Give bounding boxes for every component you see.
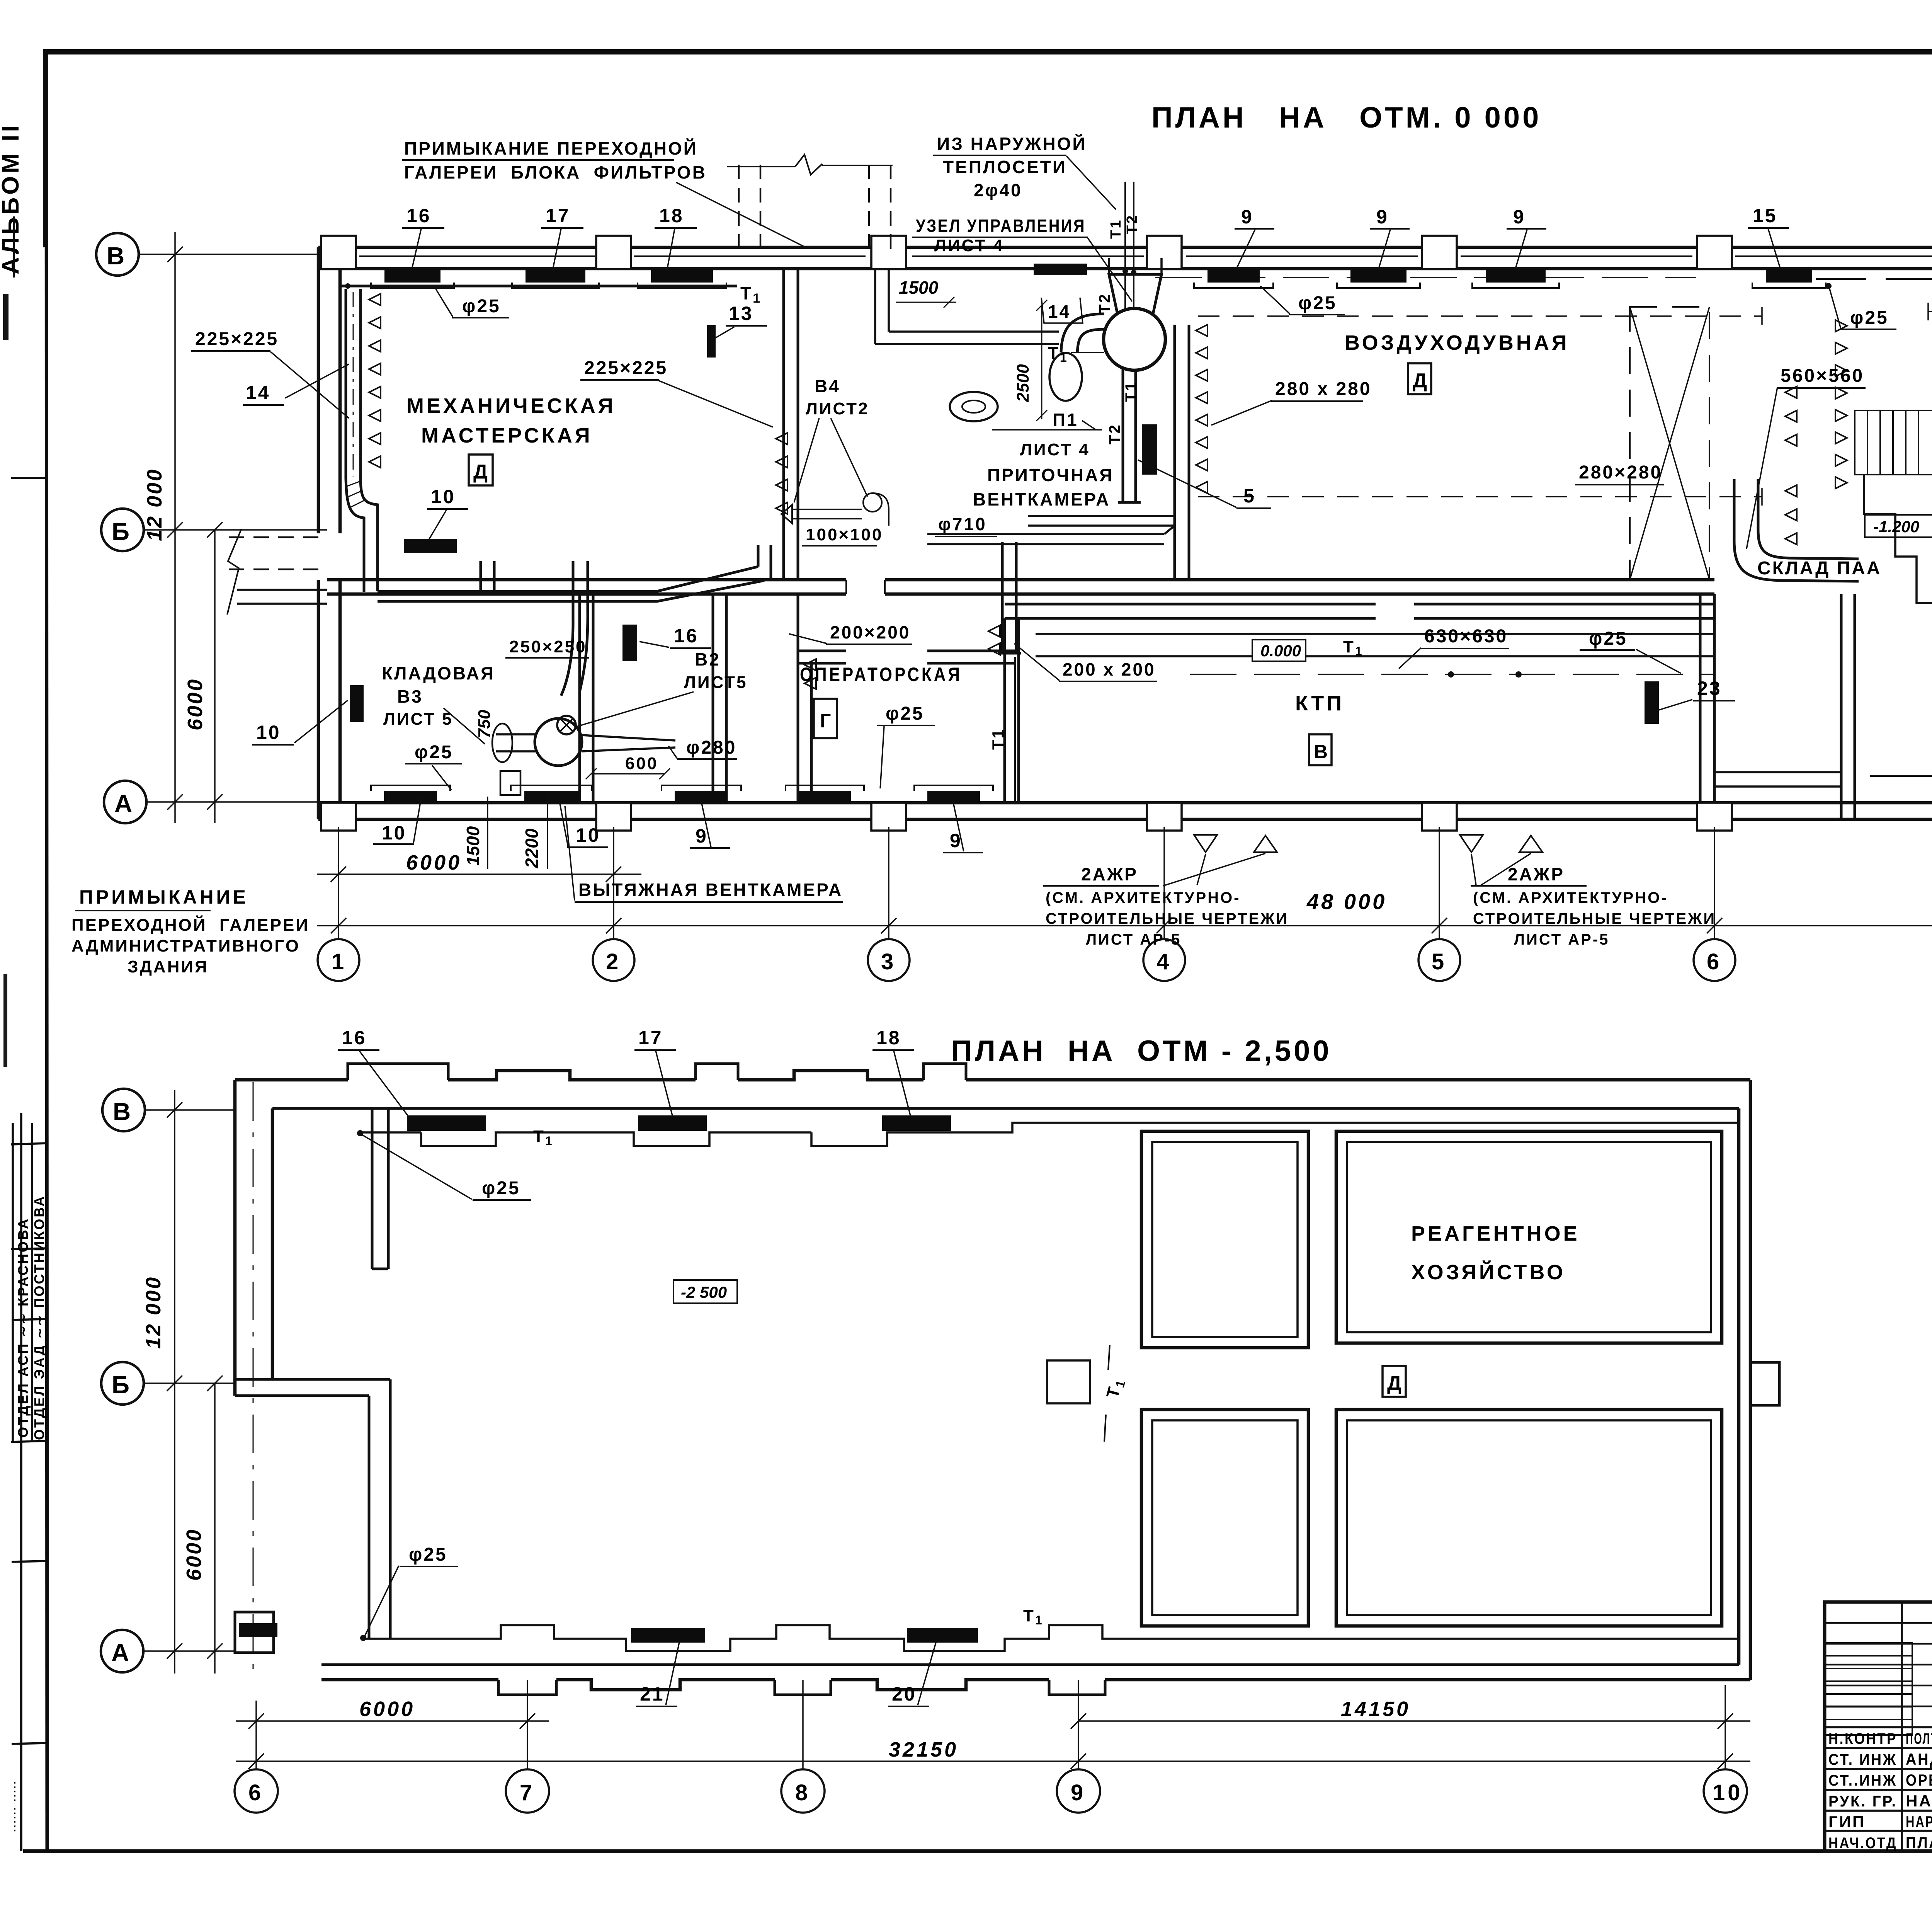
tank 4 outer bbox=[1336, 1410, 1722, 1626]
wall: partition below radiator 16 bbox=[372, 1108, 388, 1269]
svg-text:П1: П1 bbox=[1053, 410, 1078, 430]
svg-text:Т2: Т2 bbox=[1106, 423, 1123, 444]
wire: axis 6 dashdot vertical bbox=[253, 1082, 254, 1677]
svg-text:5: 5 bbox=[1432, 949, 1447, 974]
svg-text:ЛИСТ 5: ЛИСТ 5 bbox=[383, 710, 453, 729]
wire: Т1 corridor dash bbox=[1190, 674, 1714, 675]
TITLEBLOCK bbox=[1825, 1468, 1932, 1898]
svg-text:10: 10 bbox=[1713, 1780, 1743, 1805]
svg-text:100×100: 100×100 bbox=[806, 525, 883, 544]
svg-text:АНДРЕЕВА: АНДРЕЕВА bbox=[1906, 1750, 1932, 1768]
column circle 2 bbox=[593, 939, 634, 981]
svg-text:2: 2 bbox=[606, 949, 621, 974]
svg-text:Т1: Т1 bbox=[1122, 381, 1139, 402]
wire: дверь gap marks bottom wall bbox=[846, 580, 885, 594]
svg-text:9: 9 bbox=[1071, 1780, 1086, 1805]
elevation box -2 500 bbox=[673, 1280, 737, 1303]
svg-text:ПЛАН НА ОТМ - 2,500: ПЛАН НА ОТМ - 2,500 bbox=[951, 1035, 1332, 1067]
svg-text:ПЛАТОНОВ: ПЛАТОНОВ bbox=[1906, 1834, 1932, 1852]
svg-text:6000: 6000 bbox=[182, 1528, 206, 1581]
svg-text:18: 18 bbox=[876, 1027, 901, 1049]
svg-text:Б: Б bbox=[112, 518, 132, 545]
svg-text:КТП: КТП bbox=[1295, 692, 1344, 715]
svg-text:-2 500: -2 500 bbox=[681, 1283, 727, 1301]
svg-text:СТ. ИНЖ: СТ. ИНЖ bbox=[1828, 1751, 1897, 1768]
svg-text:23: 23 bbox=[1697, 678, 1722, 699]
axis circle В lower bbox=[102, 1089, 145, 1131]
svg-text:ОРЕШКИНА: ОРЕШКИНА bbox=[1906, 1771, 1932, 1789]
category box В КТП bbox=[1309, 734, 1332, 765]
dimension 32150 lower bbox=[236, 1754, 1750, 1769]
wall: lower bottom piers bbox=[498, 1680, 1105, 1695]
radiator 9f bottom операторская bbox=[799, 791, 851, 804]
svg-text:8: 8 bbox=[795, 1780, 810, 1805]
column circle 6 bbox=[1694, 939, 1735, 981]
dimension 1500 tick verticals bbox=[487, 797, 488, 869]
wall: склад ПАА right partition bbox=[1841, 594, 1855, 819]
duct: ф280 outlet right bbox=[582, 735, 675, 751]
svg-text:(СМ. АРХИТЕКТУРНО-: (СМ. АРХИТЕКТУРНО- bbox=[1046, 889, 1241, 906]
wire: Т1 Т2 risers from теплосеть bbox=[1125, 182, 1134, 310]
wall: КТП top wall bbox=[1005, 603, 1714, 606]
heater bar 23 КТП wall bbox=[1645, 681, 1659, 724]
tank 2 inner bbox=[1347, 1142, 1711, 1332]
duct: fan outlet left bbox=[496, 734, 537, 751]
svg-text:φ25: φ25 bbox=[482, 1178, 520, 1199]
svg-text:φ280: φ280 bbox=[686, 737, 736, 758]
radiator 16 top bbox=[384, 269, 440, 283]
radiator 9b top bbox=[1350, 269, 1406, 283]
svg-text:РЕАГЕНТНОЕ: РЕАГЕНТНОЕ bbox=[1411, 1222, 1580, 1245]
svg-text:18: 18 bbox=[659, 205, 684, 226]
svg-text:750: 750 bbox=[475, 710, 494, 738]
wall: узел управления room bbox=[875, 269, 1059, 344]
tank 1 outer bbox=[1141, 1131, 1308, 1348]
wire: Т1 heat main left heavy bbox=[340, 285, 737, 288]
svg-text:2АЖР: 2АЖР bbox=[1508, 864, 1565, 884]
svg-text:6: 6 bbox=[248, 1780, 264, 1805]
radiator 9a top bbox=[1207, 269, 1260, 283]
svg-text:2200: 2200 bbox=[522, 828, 542, 868]
wire: gallery break mark top bbox=[727, 155, 893, 175]
elevation box 0.000 bbox=[1252, 640, 1306, 661]
svg-text:6000: 6000 bbox=[406, 851, 462, 874]
left margin dash bbox=[3, 974, 7, 1067]
UPPERTEXT bbox=[71, 101, 1932, 976]
svg-text:250×250: 250×250 bbox=[509, 637, 587, 656]
svg-text:КЛАДОВАЯ: КЛАДОВАЯ bbox=[382, 663, 495, 683]
leader 225x225 cross bbox=[270, 352, 349, 418]
wire: воздуходувная dashed crane lines bbox=[1198, 316, 1762, 497]
wire: axis А stub line bbox=[147, 801, 327, 803]
column circle 3 bbox=[868, 939, 910, 981]
duct: elbow pair 250x250 bbox=[561, 611, 588, 696]
radiator 17 lower bbox=[638, 1115, 707, 1131]
svg-text:21: 21 bbox=[640, 1683, 665, 1705]
wall: кладовая right partition bbox=[580, 594, 593, 803]
svg-text:В4: В4 bbox=[815, 376, 840, 396]
svg-text:φ25: φ25 bbox=[1589, 628, 1628, 649]
svg-text:АДМИНИСТРАТИВНОГО: АДМИНИСТРАТИВНОГО bbox=[71, 936, 300, 955]
wall: right bump bbox=[1750, 1362, 1779, 1405]
wire: axis В stub bbox=[145, 1109, 235, 1111]
svg-text:ВЕНТКАМЕРА: ВЕНТКАМЕРА bbox=[973, 489, 1110, 509]
svg-text:ПОЛТИННИКОВА: ПОЛТИННИКОВА bbox=[1906, 1730, 1932, 1747]
component: flex oval small bbox=[950, 392, 998, 421]
duct: П1 inlet stub bbox=[1109, 258, 1162, 274]
heater bar 16 В2 bbox=[622, 625, 637, 661]
svg-text:14: 14 bbox=[1048, 301, 1071, 322]
svg-text:Б: Б bbox=[112, 1371, 132, 1399]
wall: left inner bbox=[338, 269, 342, 803]
svg-text:1: 1 bbox=[332, 949, 347, 974]
corner pier lower-left bbox=[235, 1612, 274, 1653]
svg-text:φ25: φ25 bbox=[1850, 308, 1889, 328]
column circle 4 bbox=[1143, 939, 1185, 981]
svg-text:9: 9 bbox=[1513, 206, 1526, 228]
duct: riser pair 1 into вытяжная bbox=[481, 561, 494, 591]
svg-text:МЕХАНИЧЕСКАЯ: МЕХАНИЧЕСКАЯ bbox=[406, 394, 616, 417]
wall: операторская top wall bbox=[798, 650, 1016, 652]
svg-text:А: А bbox=[111, 1639, 132, 1667]
component: flex connector bbox=[492, 724, 512, 762]
wire: Т1 drop line bbox=[1108, 1345, 1110, 1370]
svg-text:В2: В2 bbox=[695, 649, 721, 669]
dimension line 6000 vertical Б-А bbox=[207, 522, 223, 823]
svg-text:14: 14 bbox=[246, 382, 270, 403]
wire: Т1 right dash bbox=[1816, 278, 1932, 280]
wire: gallery dashed walls top bbox=[739, 165, 891, 255]
duct: riser pair 2 into вытяжную bbox=[573, 561, 588, 618]
svg-text:6: 6 bbox=[1707, 949, 1722, 974]
svg-text:ГАЛЕРЕИ БЛОКА ФИЛЬТРОВ: ГАЛЕРЕИ БЛОКА ФИЛЬТРОВ bbox=[404, 162, 707, 182]
left table rows upper bbox=[1825, 1623, 1932, 1706]
svg-text:НАЙШТУТ: НАЙШТУТ bbox=[1906, 1791, 1932, 1810]
svg-text:φ25: φ25 bbox=[462, 296, 501, 317]
column circle 7 lower bbox=[506, 1769, 549, 1813]
svg-text:ОТДЕЛ АСП ∼∼ КРАСНОВА: ОТДЕЛ АСП ∼∼ КРАСНОВА bbox=[15, 1217, 31, 1438]
svg-text:7: 7 bbox=[520, 1780, 535, 1805]
vent triangles воздуходувная left bbox=[1196, 325, 1207, 493]
svg-text:ПЛАН НА ОТМ. 0 000: ПЛАН НА ОТМ. 0 000 bbox=[1151, 101, 1541, 134]
radiator 20 lower bbox=[907, 1628, 978, 1643]
duct: 630x630 corridor run bbox=[1036, 634, 1714, 656]
dimension 12000 vertical lower bbox=[167, 1090, 182, 1674]
svg-text:АЛЬБОМ II: АЛЬБОМ II bbox=[0, 123, 24, 274]
svg-text:48 000: 48 000 bbox=[1306, 889, 1387, 914]
svg-text:12 000: 12 000 bbox=[143, 468, 166, 541]
svg-text:280 х 280: 280 х 280 bbox=[1275, 379, 1372, 399]
wire: axis В stub line bbox=[139, 254, 318, 255]
wall: lower left outer bbox=[235, 1080, 272, 1396]
svg-text:НАЧ.ОТД: НАЧ.ОТД bbox=[1828, 1835, 1897, 1852]
radiator 14 top bbox=[1034, 264, 1087, 275]
LOWERPLAN bbox=[101, 1027, 1912, 1813]
svg-text:280×280: 280×280 bbox=[1579, 462, 1662, 483]
symbols triangles 2АЖР-1 bbox=[1194, 835, 1217, 852]
svg-text:ОТДЕЛ ЭАД ∼∼ ПОСТНИКОВА: ОТДЕЛ ЭАД ∼∼ ПОСТНИКОВА bbox=[31, 1195, 47, 1440]
svg-text:9: 9 bbox=[696, 825, 708, 847]
svg-text:ХОЗЯЙСТВО: ХОЗЯЙСТВО bbox=[1411, 1260, 1566, 1284]
wall: КТП left partition bbox=[1005, 618, 1019, 803]
wire: Т1 drop in КТП bbox=[1014, 657, 1016, 803]
svg-text:10: 10 bbox=[431, 486, 456, 507]
svg-text:0.000: 0.000 bbox=[1260, 642, 1301, 660]
svg-text:В: В bbox=[113, 1098, 133, 1125]
wall: top window sill line bbox=[359, 255, 1932, 257]
heater bar 13 bbox=[707, 325, 716, 358]
radiator corner lower-left bbox=[239, 1623, 277, 1637]
radiator 10 at axis Б bbox=[404, 539, 457, 553]
svg-text:Т2: Т2 bbox=[1124, 214, 1140, 234]
frame bottom line bbox=[23, 1849, 1932, 1853]
wall: top inner face bbox=[318, 267, 1932, 271]
frame left vertical bbox=[46, 54, 47, 1851]
vent triangles мастерская right bbox=[776, 433, 787, 514]
wire: Т1 stepped pipe bottom bbox=[363, 1625, 1739, 1651]
svg-text:10: 10 bbox=[576, 824, 600, 846]
svg-text:13: 13 bbox=[729, 303, 753, 324]
svg-text:Д: Д bbox=[473, 461, 490, 483]
svg-text:2500: 2500 bbox=[1014, 364, 1032, 402]
wall: склад ПАА bottom bbox=[1714, 772, 1841, 787]
left margin smudge bbox=[3, 294, 9, 340]
wall: КТП right partition bbox=[1700, 594, 1714, 803]
paper fold tick bbox=[11, 477, 46, 479]
svg-text:14150: 14150 bbox=[1341, 1697, 1410, 1721]
svg-text:φ710: φ710 bbox=[938, 514, 987, 534]
column circle 5 bbox=[1418, 939, 1460, 981]
dimension 6000 vertical lower bbox=[207, 1376, 223, 1674]
wall: left outer bbox=[317, 247, 320, 819]
svg-text:Д: Д bbox=[1387, 1372, 1404, 1394]
svg-text:ИЗ НАРУЖНОЙ: ИЗ НАРУЖНОЙ bbox=[937, 134, 1087, 154]
svg-text:560×560: 560×560 bbox=[1781, 366, 1864, 386]
radiator 10 bottom bbox=[384, 791, 437, 804]
svg-text:φ25: φ25 bbox=[415, 742, 453, 763]
dimension line 6000 bottom cols1-2 bbox=[317, 867, 641, 882]
wall: операторская left partition bbox=[798, 594, 811, 803]
svg-text:Т1: Т1 bbox=[989, 728, 1007, 750]
leader 14 bbox=[285, 364, 349, 398]
svg-text:РУК. ГР.: РУК. ГР. bbox=[1828, 1793, 1897, 1810]
svg-text:(СМ. АРХИТЕКТУРНО-: (СМ. АРХИТЕКТУРНО- bbox=[1473, 889, 1668, 906]
svg-text:17: 17 bbox=[546, 205, 570, 226]
svg-text:5: 5 bbox=[1243, 485, 1256, 507]
column circle 6 lower bbox=[235, 1769, 278, 1813]
axis circle А lower bbox=[101, 1630, 143, 1672]
elevation box -1.200 bbox=[1865, 515, 1932, 537]
fan hub В2 bbox=[557, 716, 576, 734]
wall: lower bottom inner bbox=[321, 1663, 1739, 1666]
tank 1 inner bbox=[1152, 1142, 1298, 1337]
dimension line 12000 vertical bbox=[167, 232, 183, 823]
category box Д lower bbox=[1383, 1366, 1406, 1397]
radiator 9e bottom bbox=[927, 791, 980, 804]
svg-text:НАРЦИССОВА: НАРЦИССОВА bbox=[1906, 1813, 1932, 1831]
svg-text:ЛИСТ5: ЛИСТ5 bbox=[684, 673, 748, 692]
left table columns bbox=[1902, 1602, 1932, 1851]
column circle 1 bbox=[318, 939, 359, 981]
UPPERPLAN bbox=[96, 155, 1932, 981]
radiator 16 lower bbox=[407, 1115, 486, 1131]
wire: Т1 mid dash bbox=[1155, 277, 1696, 278]
axis circle Б lower bbox=[101, 1362, 144, 1405]
wire: насосная floor joint bbox=[1870, 775, 1932, 777]
wire: axis Б stub bbox=[144, 1382, 235, 1384]
wire: axis Б stub line bbox=[144, 529, 327, 531]
component В4 small fan bbox=[863, 493, 882, 512]
svg-text:16: 16 bbox=[406, 205, 431, 226]
svg-text:9: 9 bbox=[1376, 206, 1389, 228]
svg-text:225×225: 225×225 bbox=[584, 358, 668, 378]
svg-text:12 000: 12 000 bbox=[142, 1276, 165, 1349]
radiator 9d bottom bbox=[675, 791, 728, 804]
stairs lower plan bbox=[1824, 1643, 1912, 1735]
svg-text:СТРОИТЕЛЬНЫЕ ЧЕРТЕЖИ: СТРОИТЕЛЬНЫЕ ЧЕРТЕЖИ bbox=[1046, 910, 1289, 927]
svg-text:СТ..ИНЖ: СТ..ИНЖ bbox=[1828, 1772, 1897, 1789]
wall: воздуходувная left partition bbox=[1175, 325, 1189, 580]
dimension line 48000 bottom bbox=[317, 918, 1932, 933]
duct: П1 down main bbox=[1118, 368, 1141, 502]
leader to gallery bbox=[676, 182, 806, 247]
axis circle А bbox=[104, 781, 146, 823]
svg-text:6000: 6000 bbox=[184, 678, 207, 730]
duct: КТП drop bbox=[998, 542, 1021, 653]
radiator 17 top bbox=[526, 269, 585, 283]
svg-text:СТРОИТЕЛЬНЫЕ ЧЕРТЕЖИ: СТРОИТЕЛЬНЫЕ ЧЕРТЕЖИ bbox=[1473, 910, 1716, 927]
svg-text:ЛИСТ 4: ЛИСТ 4 bbox=[1020, 440, 1090, 459]
radiator bracket lines bottom bbox=[371, 785, 993, 791]
vent triangles склад side bbox=[1785, 386, 1797, 545]
tank 4 inner bbox=[1347, 1420, 1711, 1615]
svg-text:600: 600 bbox=[625, 754, 658, 773]
wall: приточная bottom walls bbox=[927, 516, 1175, 544]
symbols triangles 2АЖР-2 bbox=[1460, 835, 1483, 852]
wall: lower bottom outer bbox=[321, 1680, 1750, 1690]
wall: top pilasters bbox=[321, 236, 1932, 269]
category box Д воздуходувная bbox=[1408, 363, 1431, 394]
svg-text:В: В bbox=[1314, 741, 1330, 763]
wall: lower top inner bbox=[272, 1107, 1739, 1110]
dimension 14150 lower cols 9-10 bbox=[1071, 1713, 1750, 1729]
svg-text:УЗЕЛ УПРАВЛЕНИЯ: УЗЕЛ УПРАВЛЕНИЯ bbox=[916, 216, 1086, 236]
wall: top outer face bbox=[318, 246, 1932, 249]
duct: П1 cone transition bbox=[1109, 274, 1162, 314]
stairs upper plan bbox=[1855, 410, 1932, 475]
duct: ф710 elbow left of П1 bbox=[1061, 314, 1104, 353]
svg-text:φ25: φ25 bbox=[1298, 293, 1337, 313]
wire: gallery break mark left bbox=[227, 529, 241, 615]
svg-text:...... .....: ...... ..... bbox=[6, 1780, 18, 1832]
svg-text:ПРИМЫКАНИЕ: ПРИМЫКАНИЕ bbox=[79, 886, 248, 908]
duct: right end risers of horizontal run bbox=[758, 545, 771, 579]
svg-text:Т1: Т1 bbox=[1108, 219, 1124, 239]
tank 2 outer bbox=[1336, 1131, 1722, 1343]
dim 1500 узел bbox=[896, 302, 956, 303]
wire: axis А stub bbox=[143, 1650, 235, 1652]
wall: gallery solid stubs left bbox=[237, 590, 327, 604]
wire: duct channel centerline bbox=[353, 292, 354, 477]
wall: lower right vertical bbox=[1739, 1080, 1750, 1680]
svg-text:ПРИМЫКАНИЕ ПЕРЕХОДНОЙ: ПРИМЫКАНИЕ ПЕРЕХОДНОЙ bbox=[404, 138, 698, 158]
svg-text:16: 16 bbox=[674, 625, 699, 647]
svg-text:630×630: 630×630 bbox=[1424, 626, 1508, 647]
wall: inner vertical to bottom bbox=[369, 1379, 390, 1639]
vent triangles операторская bbox=[804, 659, 816, 689]
svg-text:ЛИСТ АР-5: ЛИСТ АР-5 bbox=[1086, 931, 1181, 948]
heater bar 5 on П1 duct bbox=[1142, 424, 1157, 475]
svg-text:1500: 1500 bbox=[463, 826, 483, 866]
duct: S-bend down from left channel bbox=[346, 478, 378, 592]
component: П1 supply unit circle bbox=[1104, 308, 1165, 370]
svg-text:32150: 32150 bbox=[889, 1738, 958, 1761]
fan: вытяжной вентилятор scroll bbox=[535, 718, 582, 766]
svg-text:φ25: φ25 bbox=[886, 703, 924, 724]
category box Г операторская bbox=[814, 699, 837, 738]
wall: насосная pit outline bbox=[1864, 475, 1932, 603]
svg-text:200 х 200: 200 х 200 bbox=[1063, 659, 1156, 679]
svg-text:ЛИСТ АР-5: ЛИСТ АР-5 bbox=[1514, 931, 1609, 948]
svg-text:ЛИСТ2: ЛИСТ2 bbox=[806, 399, 869, 418]
column circle 10 lower bbox=[1704, 1769, 1747, 1813]
axis circle В bbox=[96, 233, 139, 276]
category box Д мастерская bbox=[469, 455, 493, 485]
wire: gallery dashed walls left (admin) bbox=[229, 537, 318, 569]
vent triangles воздуходувная right bbox=[1835, 320, 1847, 489]
svg-text:225×225: 225×225 bbox=[195, 329, 279, 349]
svg-text:10: 10 bbox=[382, 822, 406, 844]
svg-text:ЗДАНИЯ: ЗДАНИЯ bbox=[128, 957, 209, 976]
svg-text:В3: В3 bbox=[397, 686, 423, 707]
radiator 9c top bbox=[1486, 269, 1546, 283]
radiator 18 lower bbox=[882, 1115, 951, 1131]
duct: horizontal run in corridor over кладовая bbox=[378, 567, 764, 601]
wall: мастерская right partition bbox=[784, 269, 798, 580]
wire: Т1 stepped pipe top bbox=[359, 1123, 1739, 1146]
wall: bottom pilasters bbox=[321, 803, 1932, 831]
tank 3 inner bbox=[1152, 1420, 1298, 1615]
svg-text:Д: Д bbox=[1413, 369, 1430, 392]
equipment: X-brace воздуходувная bbox=[1630, 307, 1709, 580]
axis circle Б bbox=[101, 509, 144, 551]
wall: вытяжная right partition bbox=[713, 594, 726, 803]
wall: lower top outer bbox=[235, 1071, 1750, 1080]
radiator 15 top bbox=[1766, 269, 1812, 283]
vent triangles КТП bbox=[988, 625, 1000, 655]
component: valve fitting bbox=[500, 771, 520, 795]
svg-text:МАСТЕРСКАЯ: МАСТЕРСКАЯ bbox=[421, 424, 593, 447]
wall: lower top bump left bbox=[348, 1064, 966, 1080]
component: flexible connector oval bbox=[1049, 353, 1082, 401]
svg-text:-1.200: -1.200 bbox=[1873, 518, 1919, 536]
svg-text:ТЕПЛОСЕТИ: ТЕПЛОСЕТИ bbox=[943, 157, 1067, 177]
duct: big elbow 560x560 bbox=[1734, 479, 1859, 581]
svg-text:ГИП: ГИП bbox=[1828, 1813, 1866, 1831]
svg-text:Т2: Т2 bbox=[1096, 293, 1113, 314]
dept stamp table bbox=[11, 1123, 46, 1851]
radiator 21 lower bbox=[631, 1628, 705, 1643]
svg-text:10: 10 bbox=[256, 722, 281, 743]
wall: left room bottom bbox=[235, 1379, 390, 1396]
duct: left wall channel bbox=[346, 289, 361, 479]
svg-text:3: 3 bbox=[881, 949, 896, 974]
svg-text:200×200: 200×200 bbox=[830, 622, 910, 642]
tank 3 outer bbox=[1141, 1410, 1308, 1626]
column axis stubs lower bbox=[256, 1680, 1725, 1769]
svg-text:ПРИТОЧНАЯ: ПРИТОЧНАЯ bbox=[987, 465, 1114, 485]
wire: насосная dashed line bbox=[1928, 311, 1932, 312]
